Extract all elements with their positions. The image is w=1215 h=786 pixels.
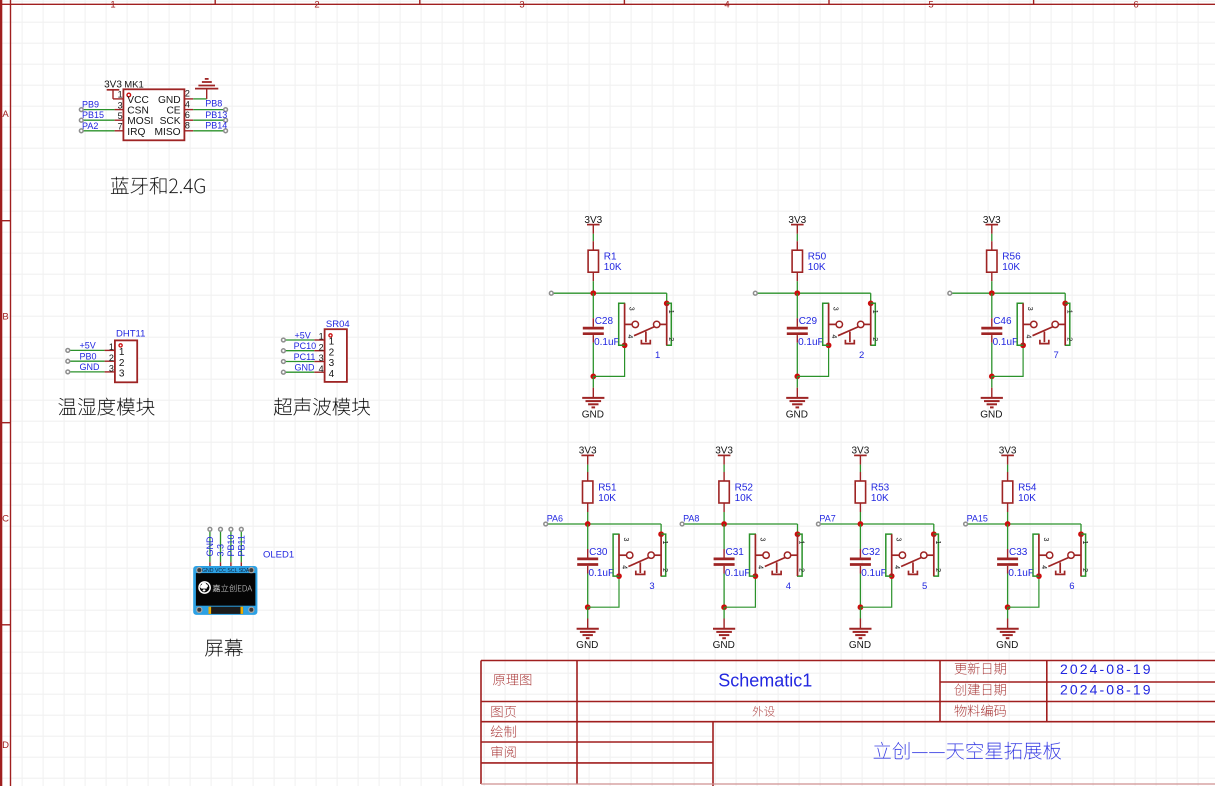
svg-text:2: 2 <box>859 350 864 361</box>
wire down to switch pin1 (button circuit 4) <box>797 524 799 534</box>
switch 1 left contact circle <box>632 321 638 327</box>
capacitor C46 plate top <box>981 327 1002 330</box>
junction dot switch pin1 (button circuit 1) <box>664 301 670 307</box>
junction dot switch pin1 (button circuit 6) <box>1078 531 1084 537</box>
svg-text:4: 4 <box>319 364 324 374</box>
switch 6 left contact circle <box>1046 552 1052 558</box>
switch 2 left contact column <box>828 303 830 345</box>
resistor R52 body <box>719 481 729 503</box>
title block label 审阅 <box>492 746 516 758</box>
OLED1 screw 2 <box>249 568 254 573</box>
ground stem (button circuit 6) <box>1007 619 1009 629</box>
ground bar2 (button circuit 3) <box>580 631 596 633</box>
wire 3V3 to resistor (button circuit 3) <box>587 465 589 472</box>
switch 3 left arm <box>619 554 627 556</box>
svg-text:IRQ: IRQ <box>127 127 145 138</box>
svg-text:1: 1 <box>109 342 114 352</box>
wire capacitor to bottom junction (button circuit 4) <box>723 574 725 608</box>
wire SR04 pin1 (green) <box>285 339 314 341</box>
board title 立创——天空星拓展板 <box>874 742 1061 760</box>
title block bottom border <box>481 783 1215 785</box>
ground bar2 (button circuit 5) <box>853 631 869 633</box>
ground bar1 (button circuit 2) <box>786 397 808 399</box>
wire junction to capacitor (button circuit 7) <box>991 293 993 318</box>
wire 3V3 to resistor (button circuit 4) <box>723 465 725 472</box>
ground stem (button circuit 1) <box>592 388 594 398</box>
ground bar1 (button circuit 3) <box>577 628 599 630</box>
svg-text:1: 1 <box>871 310 878 314</box>
svg-text:3: 3 <box>649 581 654 592</box>
pin stub pin 8 PB14 <box>184 130 193 132</box>
title block divider x713 <box>712 722 714 786</box>
wire end circle left (button circuit 1) <box>549 291 553 295</box>
switch 3 right contact circle <box>648 552 654 558</box>
ic U1 MK1 body <box>123 89 184 140</box>
wire end circle pin 3 PB9 <box>79 108 83 112</box>
ground bar4 (button circuit 6) <box>1006 637 1010 639</box>
wire down to switch pin1 (button circuit 2) <box>870 293 872 303</box>
wire DHT11 pin3 (green) <box>70 371 105 373</box>
switch 7 right contact column <box>1064 303 1066 345</box>
pin stub capacitor top (button circuit 1) <box>592 318 594 327</box>
wire OLED pin3 (green) <box>230 531 232 562</box>
title block left border <box>480 661 482 785</box>
wire end circle DHT11 pin2 <box>66 359 70 363</box>
wire end circle left (button circuit 3) <box>544 522 548 526</box>
ground symbol (MK1) bar2 <box>198 85 215 87</box>
module title 超声波模块 <box>274 398 370 416</box>
svg-text:D: D <box>2 740 9 751</box>
ground bar4 (button circuit 1) <box>592 406 596 408</box>
wire bottom junction to switch pin4 (button circuit 2) <box>797 345 828 376</box>
svg-text:10K: 10K <box>1002 262 1020 273</box>
capacitor C29 plate top <box>787 327 808 330</box>
wire 3V3 to resistor (button circuit 5) <box>859 465 861 472</box>
svg-text:3: 3 <box>319 353 324 363</box>
svg-text:2: 2 <box>314 0 319 11</box>
ground bar3 (button circuit 7) <box>987 403 997 405</box>
wire pin2 to ground <box>193 98 207 100</box>
OLED1 body <box>193 566 257 615</box>
svg-text:GND: GND <box>849 640 871 651</box>
pin stub capacitor bottom (button circuit 2) <box>796 335 798 343</box>
capacitor C28 plate bottom <box>583 332 604 335</box>
switch 6 right arm <box>1074 554 1081 556</box>
svg-text:10K: 10K <box>598 493 616 504</box>
pin stub OLED pin1 <box>209 562 211 566</box>
svg-text:0.1uF: 0.1uF <box>798 337 824 348</box>
svg-text:3: 3 <box>1042 538 1049 542</box>
switch 5 right contact circle <box>921 552 927 558</box>
wire junction to capacitor (button circuit 5) <box>859 524 861 549</box>
junction dot main (button circuit 4) <box>721 521 727 527</box>
pin stub resistor top (button circuit 7) <box>991 241 993 250</box>
title block label 更新日期 <box>955 663 1006 675</box>
svg-text:1: 1 <box>110 0 115 11</box>
switch 4 left wire bracket <box>750 534 757 576</box>
svg-text:1: 1 <box>655 350 660 361</box>
wire OLED pin4 (green) <box>240 531 242 562</box>
wire pin 3 PB9 (green) <box>83 109 114 111</box>
wire capacitor to bottom junction (button circuit 7) <box>991 343 993 377</box>
svg-text:10K: 10K <box>1018 493 1036 504</box>
svg-text:0.1uF: 0.1uF <box>861 568 887 579</box>
switch 7 right contact circle <box>1052 321 1058 327</box>
svg-text:PA6: PA6 <box>547 514 563 524</box>
wire end circle OLED pin3 <box>229 527 233 531</box>
svg-text:PB8: PB8 <box>205 99 222 109</box>
svg-text:1: 1 <box>319 332 324 342</box>
pin stub OLED pin4 <box>240 562 242 566</box>
wire junction row (button circuit 7) <box>950 292 1065 294</box>
switch 3 right contact column <box>660 534 662 576</box>
pin stub DHT11 pin2 <box>105 360 115 362</box>
sheet outer border left edge <box>0 0 2 786</box>
connector DHT11 body <box>115 340 137 382</box>
pin stub resistor bottom (button circuit 2) <box>796 272 798 281</box>
wire resistor to junction (button circuit 6) <box>1007 512 1009 524</box>
svg-text:7: 7 <box>118 122 123 132</box>
svg-text:GND VCC SCL SDA: GND VCC SCL SDA <box>202 568 250 574</box>
svg-text:PB11: PB11 <box>237 535 247 556</box>
resistor R54 body <box>1002 481 1012 503</box>
sheet inner border top <box>0 3 1215 5</box>
ground symbol (MK1) bar3 <box>202 81 212 83</box>
ground bar2 (button circuit 1) <box>586 400 602 402</box>
wire junction row (button circuit 2) <box>755 292 870 294</box>
wire junction row (button circuit 3) <box>546 523 661 525</box>
switch 5 left wire bracket <box>886 534 893 576</box>
pin stub capacitor top (button circuit 2) <box>796 318 798 327</box>
switch 5 left contact column <box>891 534 893 576</box>
wire end circle pin 7 PA2 <box>79 129 83 133</box>
power flag 3V3 bar (button circuit 3) <box>581 454 594 456</box>
svg-text:PA2: PA2 <box>82 121 98 131</box>
svg-text:1: 1 <box>1065 310 1072 314</box>
power flag 3V3 (MK1) bar <box>107 89 120 91</box>
svg-text:Schematic1: Schematic1 <box>718 671 812 691</box>
pin stub pin 6 PB13 <box>184 119 193 121</box>
switch 3 left contact circle <box>627 552 633 558</box>
switch 4 left contact column <box>754 534 756 576</box>
power flag 3V3 stem (button circuit 5) <box>859 455 861 464</box>
svg-text:2: 2 <box>1081 568 1088 572</box>
pin stub pin 4 PB8 <box>184 109 193 111</box>
svg-text:CE: CE <box>166 106 180 117</box>
svg-text:2: 2 <box>667 337 674 341</box>
wire end circle left (button circuit 7) <box>948 291 952 295</box>
junction dot main (button circuit 6) <box>1005 521 1011 527</box>
junction dot switch pin1 (button circuit 3) <box>658 531 664 537</box>
svg-text:GND: GND <box>295 363 316 373</box>
svg-text:0.1uF: 0.1uF <box>589 568 615 579</box>
wire pin 4 PB8 (green) <box>193 109 224 111</box>
ground symbol (MK1) bar1 <box>195 88 218 90</box>
title block label 创建日期 <box>955 684 1006 696</box>
OLED1 screw 1 <box>197 568 202 573</box>
switch 6 left wire bracket <box>1033 534 1040 576</box>
wire down to switch pin1 (button circuit 1) <box>666 293 668 303</box>
switch 7 left contact column <box>1022 303 1024 345</box>
svg-text:1: 1 <box>667 310 674 314</box>
junction dot main (button circuit 1) <box>590 290 596 296</box>
svg-text:R54: R54 <box>1018 483 1037 494</box>
wire SR04 pin4 (green) <box>285 371 314 373</box>
svg-text:0.1uF: 0.1uF <box>993 337 1019 348</box>
svg-text:1: 1 <box>661 541 668 545</box>
svg-text:3: 3 <box>895 538 902 542</box>
junction dot switch pin4 (button circuit 4) <box>753 573 759 579</box>
ground stem (button circuit 5) <box>859 619 861 629</box>
svg-text:VCC: VCC <box>127 95 149 106</box>
wire resistor to junction (button circuit 7) <box>991 281 993 293</box>
ground bar1 (button circuit 6) <box>997 628 1019 630</box>
svg-text:3: 3 <box>758 538 765 542</box>
pin stub pin 7 PA2 <box>115 130 124 132</box>
frame tick left 3 <box>0 624 11 626</box>
wire bottom junction to switch pin4 (button circuit 4) <box>724 576 755 607</box>
switch 7 right wire bracket <box>1065 303 1070 345</box>
junction dot main (button circuit 2) <box>794 290 800 296</box>
switch 2 lever <box>838 327 859 336</box>
switch 5 left arm <box>892 554 900 556</box>
svg-text:4: 4 <box>786 581 791 592</box>
svg-text:3.3: 3.3 <box>216 544 226 557</box>
svg-text:PB9: PB9 <box>82 100 99 110</box>
svg-text:B: B <box>2 312 8 323</box>
wire end circle left (button circuit 6) <box>964 522 968 526</box>
OLED1 screen <box>196 573 256 606</box>
svg-text:R53: R53 <box>871 483 890 494</box>
junction dot bottom (button circuit 3) <box>585 604 591 610</box>
wire end circle left (button circuit 5) <box>817 522 821 526</box>
pin stub resistor top (button circuit 5) <box>859 472 861 481</box>
resistor R1 body <box>588 250 598 272</box>
switch 4 right wire bracket <box>797 534 802 576</box>
wire SR04 pin2 (green) <box>285 350 314 352</box>
svg-text:1: 1 <box>798 541 805 545</box>
wire junction row (button circuit 4) <box>682 523 797 525</box>
power flag 3V3 stem (button circuit 6) <box>1007 455 1009 464</box>
title block label 物料编码 <box>955 705 1006 717</box>
ground bar3 (button circuit 5) <box>855 634 865 636</box>
wire resistor to junction (button circuit 5) <box>859 512 861 524</box>
wire junction row (button circuit 1) <box>551 292 666 294</box>
svg-text:PA7: PA7 <box>819 514 835 524</box>
ground bar2 (button circuit 6) <box>1000 631 1016 633</box>
pin stub capacitor bottom (button circuit 3) <box>587 566 589 574</box>
OLED1 connector pad right <box>241 607 244 614</box>
ground bar3 (button circuit 1) <box>588 403 598 405</box>
svg-text:C32: C32 <box>862 547 881 558</box>
svg-text:10K: 10K <box>735 493 753 504</box>
power flag 3V3 bar (button circuit 4) <box>718 454 731 456</box>
pin stub resistor top (button circuit 4) <box>723 472 725 481</box>
capacitor C30 plate bottom <box>577 563 598 566</box>
svg-text:2: 2 <box>661 568 668 572</box>
junction dot bottom (button circuit 1) <box>590 374 596 380</box>
switch 2 right contact circle <box>858 321 864 327</box>
wire capacitor to bottom junction (button circuit 5) <box>859 574 861 608</box>
svg-text:PC10: PC10 <box>294 341 317 351</box>
OLED1 logo cloud icon <box>199 582 210 593</box>
resistor R56 body <box>987 250 997 272</box>
svg-text:R1: R1 <box>604 252 617 263</box>
switch 1 left contact column <box>624 303 626 345</box>
svg-text:CSN: CSN <box>127 106 149 117</box>
pin stub capacitor top (button circuit 3) <box>587 549 589 558</box>
switch 4 actuator cup <box>772 571 781 575</box>
wire 3V3 to resistor (button circuit 6) <box>1007 465 1009 472</box>
svg-text:PB10: PB10 <box>226 534 236 556</box>
frame tick top 5 <box>1033 0 1035 4</box>
pin stub DHT11 pin1 <box>105 349 115 351</box>
wire bottom junction to switch pin4 (button circuit 5) <box>860 576 891 607</box>
svg-text:PA8: PA8 <box>683 514 699 524</box>
module title 温湿度模块 <box>59 398 155 416</box>
svg-text:C30: C30 <box>589 547 608 558</box>
title block top border <box>481 660 1215 662</box>
junction dot bottom (button circuit 5) <box>858 604 864 610</box>
capacitor C46 plate bottom <box>981 332 1002 335</box>
power flag 3V3 bar (button circuit 5) <box>854 454 867 456</box>
wire bottom junction to switch pin4 (button circuit 1) <box>593 345 624 376</box>
capacitor C31 plate bottom <box>714 563 735 566</box>
OLED1 connector <box>209 607 244 614</box>
wire OLED pin2 (green) <box>220 531 222 562</box>
wire pin 5 PB15 (green) <box>83 119 114 121</box>
svg-text:4: 4 <box>1024 335 1031 339</box>
wire end circle DHT11 pin1 <box>66 349 70 353</box>
sheet inner border left <box>10 0 12 786</box>
svg-text:1: 1 <box>329 337 335 348</box>
wire end circle OLED pin1 <box>208 527 212 531</box>
switch 7 left contact circle <box>1031 321 1037 327</box>
frame tick left 2 <box>0 422 11 424</box>
svg-text:6: 6 <box>185 110 190 120</box>
resistor R53 body <box>855 481 865 503</box>
svg-text:5: 5 <box>928 0 933 11</box>
wire junction to capacitor (button circuit 3) <box>587 524 589 549</box>
junction dot bottom (button circuit 7) <box>989 374 995 380</box>
power flag 3V3 stem (button circuit 4) <box>723 455 725 464</box>
svg-text:PB13: PB13 <box>205 110 227 120</box>
switch 3 lever <box>628 557 649 566</box>
switch 3 right arm <box>654 554 661 556</box>
wire resistor to junction (button circuit 2) <box>796 281 798 293</box>
ground symbol (MK1) bar4 <box>205 78 209 80</box>
wire pin 7 PA2 (green) <box>83 130 114 132</box>
resistor R50 body <box>792 250 802 272</box>
wire bottom junction to switch pin4 (button circuit 3) <box>588 576 619 607</box>
connector SR04 body <box>325 329 347 382</box>
switch 3 actuator stem <box>639 562 641 573</box>
connector SR04 pin1 dot <box>329 334 332 337</box>
svg-text:2: 2 <box>319 342 324 352</box>
switch 2 left arm <box>829 323 837 325</box>
wire down to switch pin1 (button circuit 7) <box>1064 293 1066 303</box>
wire capacitor to bottom junction (button circuit 3) <box>587 574 589 608</box>
pin stub resistor bottom (button circuit 3) <box>587 503 589 512</box>
ground bar4 (button circuit 2) <box>796 406 800 408</box>
connector DHT11 pin1 dot <box>119 344 122 347</box>
wire down to switch pin1 (button circuit 3) <box>660 524 662 534</box>
svg-text:2: 2 <box>798 568 805 572</box>
ground bar3 (button circuit 4) <box>719 634 729 636</box>
svg-text:PA15: PA15 <box>967 514 988 524</box>
wire end circle DHT11 pin3 <box>66 370 70 374</box>
switch 6 left contact column <box>1038 534 1040 576</box>
switch 2 right wire bracket <box>870 303 875 345</box>
title block divider y763 <box>481 762 713 764</box>
pin stub SR04 pin3 <box>314 361 324 363</box>
svg-text:GND: GND <box>80 362 101 372</box>
svg-text:GND: GND <box>576 640 598 651</box>
wire junction to ground (button circuit 6) <box>1007 607 1009 618</box>
pin stub capacitor top (button circuit 7) <box>991 318 993 327</box>
ground bar1 (button circuit 4) <box>713 628 735 630</box>
svg-text:R50: R50 <box>808 252 827 263</box>
pin stub capacitor bottom (button circuit 6) <box>1007 566 1009 574</box>
switch 1 right contact column <box>666 303 668 345</box>
frame tick top 1 <box>214 0 216 4</box>
ground bar1 (button circuit 7) <box>981 397 1003 399</box>
OLED1 logo text 嘉立创EDA <box>213 584 252 591</box>
switch 4 left arm <box>755 554 763 556</box>
power flag 3V3 stem (button circuit 1) <box>592 225 594 234</box>
svg-text:PB14: PB14 <box>205 120 227 130</box>
switch 1 right wire bracket <box>666 303 671 345</box>
ground bar4 (button circuit 4) <box>722 637 726 639</box>
svg-text:PB15: PB15 <box>82 110 104 120</box>
wire junction to capacitor (button circuit 4) <box>723 524 725 549</box>
svg-text:A: A <box>2 109 9 120</box>
junction dot switch pin1 (button circuit 7) <box>1062 301 1068 307</box>
svg-text:0.1uF: 0.1uF <box>725 568 751 579</box>
power flag 3V3 stem (button circuit 7) <box>991 225 993 234</box>
switch 6 left arm <box>1039 554 1047 556</box>
pin stub resistor top (button circuit 2) <box>796 241 798 250</box>
svg-text:5: 5 <box>922 581 927 592</box>
wire capacitor to bottom junction (button circuit 2) <box>796 343 798 377</box>
switch 1 actuator stem <box>645 332 647 343</box>
ground bar3 (button circuit 6) <box>1002 634 1012 636</box>
frame tick top 4 <box>828 0 830 4</box>
pin stub pin 3 PB9 <box>115 109 124 111</box>
switch 1 actuator cup <box>641 340 650 344</box>
pin stub pin 5 PB15 <box>115 119 124 121</box>
junction dot bottom (button circuit 6) <box>1005 604 1011 610</box>
ground bar1 (button circuit 5) <box>849 628 871 630</box>
svg-text:SCK: SCK <box>160 116 181 127</box>
svg-text:1: 1 <box>118 90 123 100</box>
pin stub resistor bottom (button circuit 6) <box>1007 503 1009 512</box>
ground bar2 (button circuit 7) <box>984 400 1000 402</box>
capacitor C29 plate bottom <box>787 332 808 335</box>
switch 4 lever <box>765 557 786 566</box>
wire down to switch pin1 (button circuit 6) <box>1080 524 1082 534</box>
ground stem (button circuit 2) <box>796 388 798 398</box>
junction dot switch pin1 (button circuit 4) <box>795 531 801 537</box>
wire junction to ground (button circuit 4) <box>723 607 725 618</box>
svg-text:0.1uF: 0.1uF <box>1008 568 1034 579</box>
switch 2 right contact column <box>870 303 872 345</box>
switch 5 lever <box>901 557 922 566</box>
switch 5 actuator stem <box>912 562 914 573</box>
switch 7 lever <box>1033 327 1054 336</box>
switch 1 right arm <box>660 323 667 325</box>
svg-text:10K: 10K <box>808 262 826 273</box>
